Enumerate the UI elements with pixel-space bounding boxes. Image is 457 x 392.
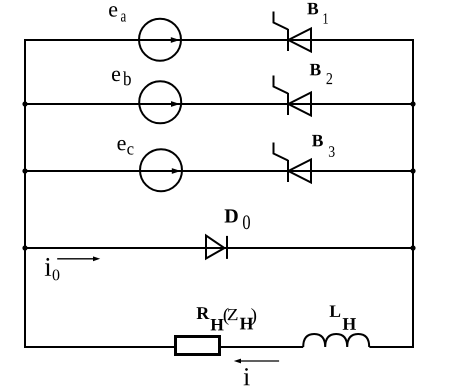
label e_b bbox=[112, 71, 131, 86]
thyristor B1 bbox=[274, 12, 312, 52]
current arrow i0 bbox=[57, 256, 100, 261]
current arrow i bbox=[234, 359, 279, 364]
wire left bus bbox=[24, 39, 26, 348]
junction right d bbox=[410, 245, 415, 250]
voltage source e_c bbox=[140, 149, 182, 191]
label e_c bbox=[118, 140, 134, 155]
label i bbox=[244, 368, 250, 385]
junction right c bbox=[410, 168, 415, 173]
voltage source e_b bbox=[139, 81, 181, 123]
wire phase c bbox=[24, 170, 414, 172]
label D0 bbox=[225, 209, 250, 229]
label i0 bbox=[45, 258, 60, 280]
wire bottom branch right bbox=[369, 346, 414, 348]
wire right bus bbox=[412, 39, 414, 348]
junction left d bbox=[22, 245, 27, 250]
junction right b bbox=[410, 101, 415, 106]
label B3 bbox=[312, 135, 335, 157]
label e_a bbox=[109, 6, 126, 22]
diode D0 bbox=[206, 236, 227, 259]
thyristor B3 bbox=[274, 143, 312, 183]
resistor RH bbox=[176, 337, 220, 355]
wire phase a bbox=[24, 39, 414, 41]
voltage source e_a bbox=[139, 19, 181, 61]
wire bottom branch middle bbox=[220, 346, 303, 348]
wire diode branch bbox=[24, 247, 414, 249]
label RH ZH bbox=[197, 307, 257, 330]
label B1 bbox=[307, 3, 328, 24]
label LH bbox=[330, 305, 356, 329]
wire bottom branch left bbox=[24, 346, 175, 348]
wire phase b bbox=[24, 103, 414, 105]
thyristor B2 bbox=[274, 76, 312, 116]
junction left c bbox=[22, 168, 27, 173]
label B2 bbox=[310, 64, 332, 84]
inductor LH bbox=[303, 334, 369, 347]
junction left b bbox=[22, 101, 27, 106]
